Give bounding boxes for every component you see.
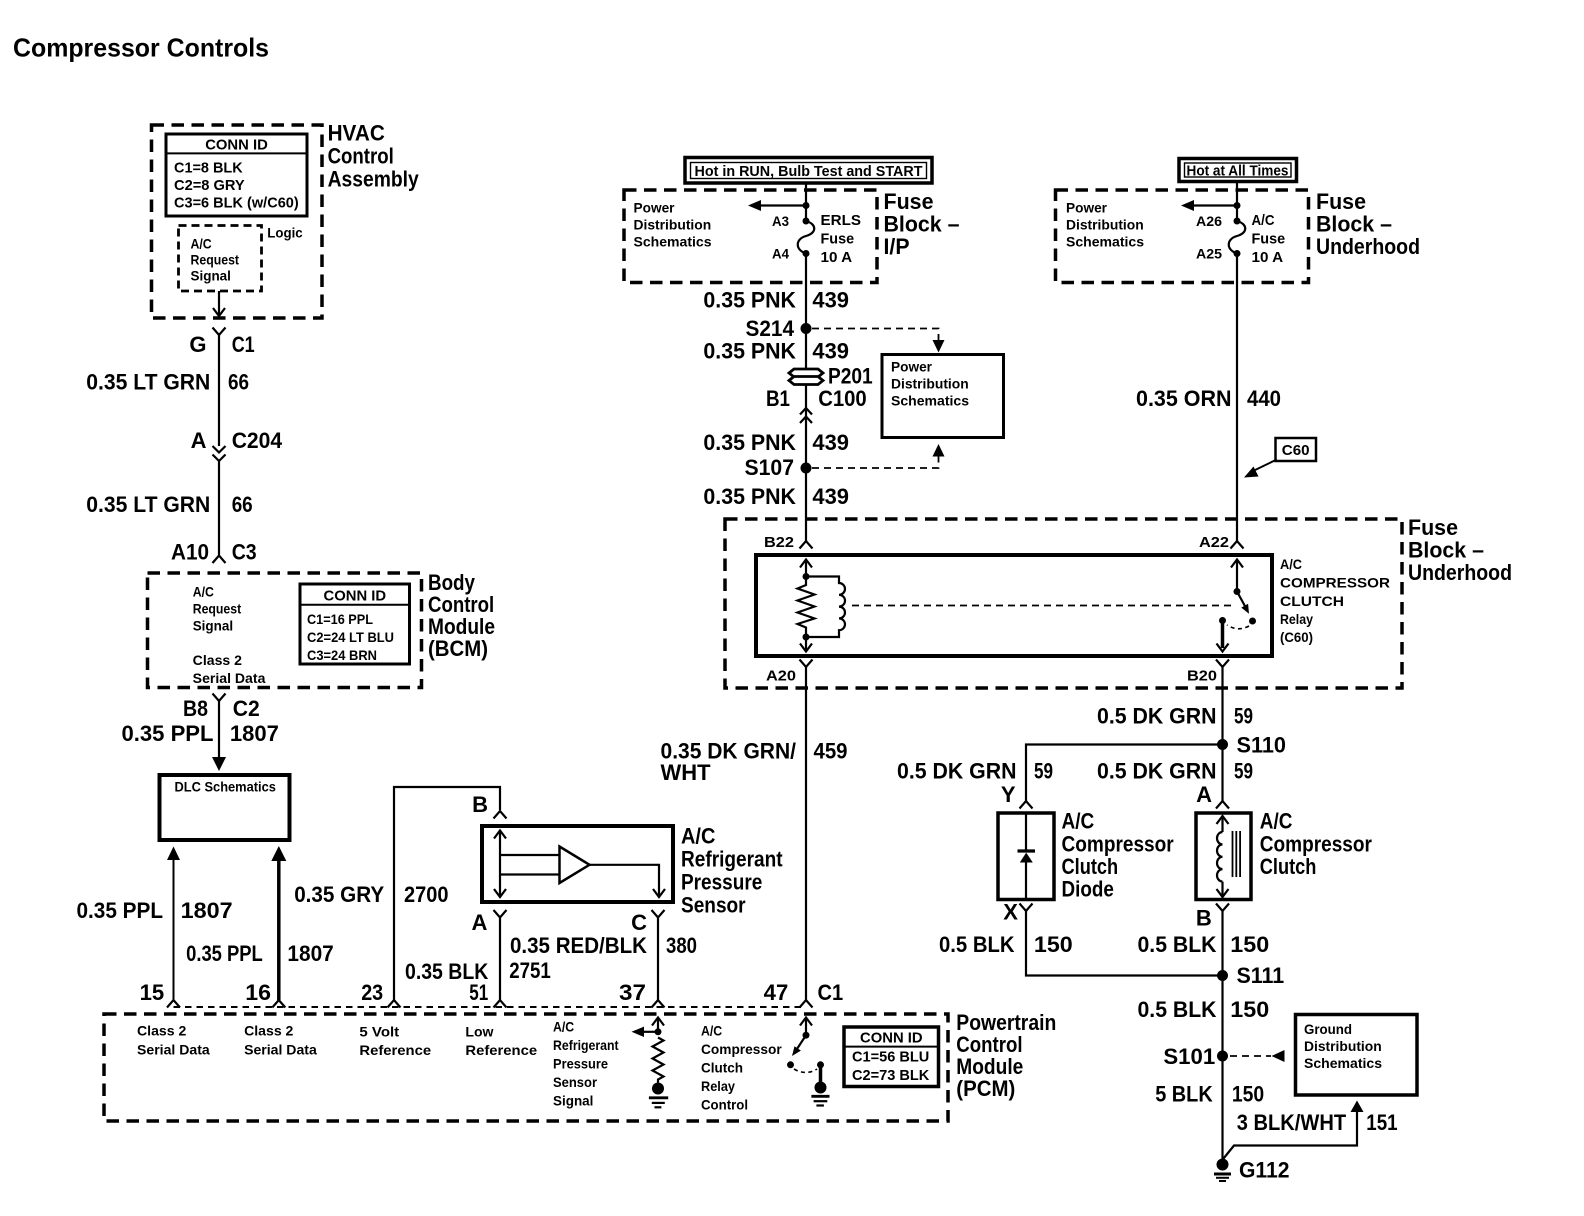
svg-text:Reference: Reference bbox=[359, 1042, 431, 1058]
svg-text:A/C: A/C bbox=[193, 584, 214, 600]
connector pin A clutch (fork) bbox=[1196, 782, 1229, 809]
svg-text:Relay: Relay bbox=[1280, 611, 1313, 627]
svg-text:S111: S111 bbox=[1237, 963, 1285, 988]
svg-text:HVAC: HVAC bbox=[328, 121, 385, 146]
svg-text:Relay: Relay bbox=[701, 1078, 735, 1094]
svg-text:Clutch: Clutch bbox=[1260, 854, 1317, 879]
wire 0.35 LT GRN 66 (upper) bbox=[86, 335, 249, 446]
splice S110 bbox=[1217, 733, 1286, 758]
wire 0.35 PPL 1807 (pin 16 to DLC) bbox=[186, 846, 334, 1000]
wire 0.35 PPL 1807 (BCM to DLC) bbox=[122, 701, 279, 771]
svg-text:2700: 2700 bbox=[404, 882, 449, 907]
svg-text:Request: Request bbox=[193, 601, 242, 617]
svg-text:Class 2: Class 2 bbox=[193, 652, 243, 668]
PCM pin 51 label Low Reference bbox=[465, 1024, 537, 1059]
module Fuse Block - Underhood relay (dashed box) bbox=[725, 519, 1402, 688]
svg-text:0.35 LT GRN: 0.35 LT GRN bbox=[86, 370, 210, 395]
svg-text:C204: C204 bbox=[232, 428, 283, 453]
grommet P201 bbox=[789, 364, 873, 389]
svg-text:A25: A25 bbox=[1196, 246, 1222, 262]
svg-text:C1=56 BLU: C1=56 BLU bbox=[852, 1049, 929, 1066]
splice S111 bbox=[1217, 963, 1284, 988]
connector pin X (fork) bbox=[1003, 900, 1032, 925]
svg-text:Power: Power bbox=[1066, 200, 1108, 216]
CONN ID table (BCM) bbox=[300, 584, 410, 664]
label A/C COMPRESSOR CLUTCH Relay (C60) bbox=[1280, 556, 1390, 645]
dashed leader S101 to Ground Distribution Schematics bbox=[1230, 1050, 1285, 1062]
svg-text:23: 23 bbox=[361, 980, 383, 1005]
svg-text:Schematics: Schematics bbox=[1066, 234, 1144, 250]
label A/C Compressor Clutch Diode bbox=[1062, 809, 1175, 902]
svg-text:10 A: 10 A bbox=[821, 249, 853, 266]
svg-text:1807: 1807 bbox=[287, 941, 333, 966]
svg-text:A22: A22 bbox=[1199, 534, 1229, 551]
svg-text:C3=6 BLK (w/C60): C3=6 BLK (w/C60) bbox=[174, 195, 299, 212]
header box Hot in RUN, Bulb Test and START bbox=[685, 158, 932, 184]
svg-text:C3=24 BRN: C3=24 BRN bbox=[307, 647, 377, 663]
wire 0.35 PNK 439 (S214 to P201) bbox=[703, 339, 849, 364]
PCM label A/C Compressor Clutch Relay Control bbox=[701, 1023, 782, 1113]
dashed leader S107 to Power Distribution Schematics bbox=[812, 444, 945, 468]
svg-text:439: 439 bbox=[812, 288, 849, 313]
svg-text:Serial Data: Serial Data bbox=[193, 670, 266, 686]
svg-text:Control: Control bbox=[701, 1097, 748, 1113]
svg-text:Serial Data: Serial Data bbox=[137, 1042, 210, 1058]
svg-text:(BCM): (BCM) bbox=[428, 636, 488, 661]
svg-text:C60: C60 bbox=[1282, 442, 1310, 459]
BCM internal labels bbox=[193, 584, 266, 687]
svg-text:A/C: A/C bbox=[1280, 556, 1302, 572]
svg-text:440: 440 bbox=[1247, 386, 1281, 411]
svg-text:C1=16 PPL: C1=16 PPL bbox=[307, 611, 373, 627]
svg-text:Low: Low bbox=[465, 1024, 493, 1040]
wire from Hot at All Times into fuse bbox=[1236, 181, 1238, 221]
svg-text:150: 150 bbox=[1034, 932, 1073, 957]
callout C60 bbox=[1244, 438, 1316, 478]
svg-text:A26: A26 bbox=[1196, 213, 1222, 229]
wire A/C request inside HVAC with arrow bbox=[213, 291, 225, 316]
svg-text:CONN ID: CONN ID bbox=[324, 588, 387, 605]
svg-text:0.35 PPL: 0.35 PPL bbox=[122, 721, 214, 746]
svg-text:Underhood: Underhood bbox=[1408, 560, 1512, 585]
wire 0.35 PNK 439 (C100 to S107) bbox=[703, 430, 849, 455]
header box Hot at All Times bbox=[1179, 159, 1297, 182]
svg-text:Class 2: Class 2 bbox=[244, 1023, 294, 1039]
svg-text:CONN ID: CONN ID bbox=[860, 1030, 923, 1047]
svg-text:B22: B22 bbox=[764, 534, 794, 551]
fuse A/C Fuse 10 A bbox=[1196, 212, 1285, 266]
diode symbol bbox=[1018, 813, 1036, 900]
svg-text:Fuse: Fuse bbox=[1252, 231, 1286, 248]
PCM pin 15 label Class 2 Serial Data bbox=[137, 1023, 210, 1058]
in-line connector A / C204 (double chevron) bbox=[191, 428, 283, 461]
svg-text:150: 150 bbox=[1230, 997, 1269, 1022]
wire 0.5 BLK 150 (X to S111) bbox=[939, 911, 1223, 976]
svg-text:S214: S214 bbox=[746, 316, 795, 341]
pin row dashed line bbox=[174, 1006, 807, 1008]
svg-text:66: 66 bbox=[228, 370, 249, 395]
wire 0.35 PNK 439 (S107 down) bbox=[703, 484, 849, 509]
svg-text:Distribution: Distribution bbox=[891, 376, 969, 392]
svg-text:0.35 LT GRN: 0.35 LT GRN bbox=[86, 492, 210, 517]
branch arrow to other circuits (underhood) bbox=[1181, 200, 1241, 211]
svg-text:ERLS: ERLS bbox=[821, 212, 862, 229]
module Fuse Block - Underhood top (dashed box) bbox=[1056, 190, 1309, 283]
svg-text:0.5 BLK: 0.5 BLK bbox=[939, 932, 1015, 957]
svg-text:1807: 1807 bbox=[181, 898, 233, 923]
wire from Hot in RUN into fuse block bbox=[805, 183, 807, 221]
svg-text:51: 51 bbox=[469, 980, 488, 1005]
svg-text:B8: B8 bbox=[183, 696, 208, 721]
PCM internal: pin 37 pull-up resistor to ground bbox=[632, 1018, 669, 1108]
svg-text:Serial Data: Serial Data bbox=[244, 1042, 317, 1058]
svg-text:B1: B1 bbox=[766, 386, 790, 411]
sensor internal: output line bbox=[590, 865, 666, 897]
block DLC Schematics bbox=[160, 775, 290, 840]
svg-text:Fuse: Fuse bbox=[821, 231, 855, 248]
clutch coil symbol bbox=[1217, 816, 1241, 897]
relay actuation dashed line bbox=[852, 605, 1233, 607]
svg-text:Fuse: Fuse bbox=[884, 189, 934, 214]
splice S107 bbox=[745, 455, 812, 480]
svg-text:X: X bbox=[1003, 900, 1018, 925]
connector pin B (fork) bbox=[472, 792, 506, 819]
svg-text:Assembly: Assembly bbox=[328, 166, 420, 191]
svg-text:0.35 RED/BLK: 0.35 RED/BLK bbox=[510, 933, 647, 958]
svg-text:G112: G112 bbox=[1239, 1158, 1290, 1183]
svg-text:459: 459 bbox=[814, 739, 848, 764]
svg-text:59: 59 bbox=[1034, 759, 1053, 784]
svg-text:C1: C1 bbox=[818, 980, 844, 1005]
fuse ERLS Fuse 10 A bbox=[772, 212, 861, 266]
svg-text:C2=73 BLK: C2=73 BLK bbox=[852, 1067, 929, 1084]
sensor internal: amplifier triangle bbox=[560, 847, 590, 884]
svg-text:Schematics: Schematics bbox=[1304, 1055, 1382, 1071]
svg-text:C2=24 LT BLU: C2=24 LT BLU bbox=[307, 629, 394, 645]
svg-text:Y: Y bbox=[1001, 782, 1016, 807]
svg-text:0.35 PNK: 0.35 PNK bbox=[703, 288, 796, 313]
svg-text:(C60): (C60) bbox=[1280, 629, 1313, 645]
svg-text:2751: 2751 bbox=[509, 958, 551, 983]
connector pin B clutch (fork) bbox=[1196, 904, 1229, 931]
svg-text:5 BLK: 5 BLK bbox=[1155, 1082, 1213, 1107]
svg-text:A/C: A/C bbox=[1062, 809, 1095, 834]
ground G112 bbox=[1214, 1158, 1290, 1183]
label Powertrain Control Module (PCM) bbox=[956, 1010, 1056, 1101]
sensor internal: supply line with arrows bbox=[494, 831, 560, 898]
svg-text:Power: Power bbox=[891, 359, 933, 375]
wire 0.35 LT GRN 66 (lower) bbox=[86, 461, 252, 556]
connector pin C (fork) + wire 0.35 RED/BLK 380 bbox=[510, 910, 697, 1000]
svg-text:A/C: A/C bbox=[1260, 809, 1293, 834]
relay switch bbox=[1217, 560, 1257, 652]
label Fuse Block - Underhood bbox=[1316, 189, 1420, 259]
connector pin B8 of C2 (fork) bbox=[183, 694, 260, 722]
svg-text:(PCM): (PCM) bbox=[956, 1076, 1015, 1101]
wire 5 BLK 150 (S101 to G112) bbox=[1155, 1056, 1264, 1160]
svg-text:151: 151 bbox=[1366, 1110, 1397, 1135]
wire 0.35 GRY 2700 (pin 23 to sensor B) bbox=[294, 787, 500, 1000]
PCM pin 23 label 5 Volt Reference bbox=[359, 1024, 431, 1059]
svg-text:0.35 ORN: 0.35 ORN bbox=[1136, 386, 1232, 411]
svg-text:A/C: A/C bbox=[191, 236, 212, 252]
svg-text:Signal: Signal bbox=[553, 1093, 593, 1109]
svg-text:Schematics: Schematics bbox=[634, 234, 712, 250]
svg-text:0.35 PPL: 0.35 PPL bbox=[77, 898, 164, 923]
wire 0.35 ORN 440 bbox=[1136, 254, 1281, 542]
svg-text:Diode: Diode bbox=[1062, 877, 1114, 902]
svg-text:A: A bbox=[1196, 782, 1212, 807]
svg-text:Reference: Reference bbox=[465, 1042, 537, 1058]
svg-text:Class 2: Class 2 bbox=[137, 1023, 187, 1039]
title Compressor Controls bbox=[13, 33, 269, 63]
wire 0.5 BLK 150 (S111 to S101) bbox=[1138, 997, 1270, 1022]
svg-text:5 Volt: 5 Volt bbox=[359, 1024, 399, 1040]
block Power Distribution Schematics bbox=[882, 355, 1004, 438]
connector pin G of C1 (fork) bbox=[189, 328, 254, 358]
svg-text:Compressor: Compressor bbox=[1062, 831, 1175, 856]
svg-text:15: 15 bbox=[140, 980, 165, 1005]
svg-text:439: 439 bbox=[812, 430, 849, 455]
wire 0.35 DK GRN/WHT 459 bbox=[661, 667, 848, 1000]
svg-text:C100: C100 bbox=[818, 386, 867, 411]
label Fuse Block - I/P bbox=[884, 189, 960, 259]
svg-text:Block –: Block – bbox=[884, 212, 960, 237]
svg-text:0.5 DK GRN: 0.5 DK GRN bbox=[1097, 759, 1217, 784]
dashed leader S214 to Power Distribution Schematics bbox=[812, 329, 945, 353]
svg-text:66: 66 bbox=[232, 492, 253, 517]
svg-text:Schematics: Schematics bbox=[891, 393, 969, 409]
in-line connector B1 C100 (double chevron) bbox=[766, 386, 867, 423]
svg-text:0.5 DK GRN: 0.5 DK GRN bbox=[897, 759, 1017, 784]
svg-text:A: A bbox=[472, 910, 488, 935]
A/C Refrigerant Pressure Sensor box bbox=[482, 826, 673, 902]
svg-text:Sensor: Sensor bbox=[681, 893, 746, 918]
svg-text:CONN ID: CONN ID bbox=[205, 137, 268, 154]
svg-text:P201: P201 bbox=[828, 364, 873, 389]
svg-text:Compressor: Compressor bbox=[701, 1041, 782, 1057]
connector pin A20 (fork) bbox=[766, 660, 813, 685]
svg-text:Logic: Logic bbox=[267, 225, 303, 241]
svg-text:B20: B20 bbox=[1187, 668, 1217, 685]
svg-text:0.5 BLK: 0.5 BLK bbox=[1138, 997, 1217, 1022]
svg-text:A20: A20 bbox=[766, 668, 796, 685]
svg-text:439: 439 bbox=[812, 339, 849, 364]
wire 0.35 PPL 1807 (pin 15 to DLC) bbox=[77, 847, 233, 1001]
svg-text:A10: A10 bbox=[171, 540, 209, 565]
wire label 0.5 DK GRN 59 (right) bbox=[1097, 759, 1253, 784]
svg-text:Distribution: Distribution bbox=[1304, 1038, 1382, 1054]
A/C Compressor Clutch Diode box bbox=[998, 813, 1054, 900]
label A/C Compressor Clutch bbox=[1260, 809, 1372, 880]
connector pin A10 of C3 (fork) bbox=[171, 540, 257, 565]
svg-text:A/C: A/C bbox=[1252, 212, 1275, 229]
svg-text:C1: C1 bbox=[232, 332, 255, 357]
PCM label A/C Refrigerant Pressure Sensor Signal bbox=[553, 1019, 619, 1109]
svg-text:S110: S110 bbox=[1237, 733, 1287, 758]
connector pin A22 (fork) bbox=[1199, 534, 1244, 551]
label HVAC Control Assembly bbox=[328, 121, 420, 192]
wire 0.35 PNK 439 (fuse to S214) bbox=[703, 254, 849, 542]
svg-text:150: 150 bbox=[1230, 932, 1269, 957]
svg-text:Clutch: Clutch bbox=[1062, 854, 1119, 879]
svg-text:150: 150 bbox=[1232, 1082, 1264, 1107]
svg-text:I/P: I/P bbox=[884, 234, 910, 259]
label Body Control Module (BCM) bbox=[428, 570, 495, 661]
svg-text:0.35 PNK: 0.35 PNK bbox=[703, 484, 796, 509]
module HVAC Control Assembly (dashed box) bbox=[152, 125, 323, 318]
splice S101 bbox=[1163, 1044, 1228, 1069]
wire branch S110 to diode (0.5 DK GRN 59) bbox=[897, 745, 1223, 802]
note Power Distribution Schematics (I/P) bbox=[634, 200, 712, 250]
connector pins 15 16 23 51 37 47 C1 (forks) bbox=[140, 980, 844, 1008]
svg-text:Distribution: Distribution bbox=[634, 217, 712, 233]
svg-text:Clutch: Clutch bbox=[701, 1060, 743, 1076]
svg-text:Compressor: Compressor bbox=[1260, 831, 1372, 856]
svg-text:0.35 PPL: 0.35 PPL bbox=[186, 941, 263, 966]
svg-text:10 A: 10 A bbox=[1252, 249, 1284, 266]
svg-text:A/C: A/C bbox=[553, 1019, 574, 1035]
wire 0.5 BLK 150 (B to S111) bbox=[1138, 911, 1270, 1056]
branch arrow to other circuits (I/P) bbox=[748, 200, 810, 211]
svg-text:Power: Power bbox=[634, 200, 676, 216]
svg-text:0.35 PNK: 0.35 PNK bbox=[703, 430, 796, 455]
label A/C Refrigerant Pressure Sensor bbox=[681, 824, 783, 918]
svg-text:439: 439 bbox=[812, 484, 849, 509]
wire 0.5 DK GRN 59 (B20 to S110) bbox=[1097, 667, 1253, 801]
note Power Distribution Schematics (underhood) bbox=[1066, 200, 1144, 250]
svg-text:CLUTCH: CLUTCH bbox=[1280, 593, 1344, 609]
svg-text:Signal: Signal bbox=[191, 268, 231, 284]
connector pin Y (fork) bbox=[1001, 782, 1033, 809]
svg-text:59: 59 bbox=[1234, 759, 1253, 784]
connector pin B22 (fork) bbox=[764, 534, 813, 551]
svg-text:A/C: A/C bbox=[681, 824, 715, 849]
svg-text:Block –: Block – bbox=[1408, 538, 1484, 563]
module Body Control Module (dashed box) bbox=[148, 573, 422, 688]
svg-text:Signal: Signal bbox=[193, 618, 233, 634]
svg-text:Refrigerant: Refrigerant bbox=[553, 1037, 619, 1053]
module Fuse Block - I/P (dashed box) bbox=[624, 190, 877, 283]
svg-text:Fuse: Fuse bbox=[1408, 515, 1458, 540]
logic block A/C Request Signal (dashed) bbox=[179, 226, 262, 292]
svg-text:Pressure: Pressure bbox=[681, 870, 762, 895]
svg-text:DLC Schematics: DLC Schematics bbox=[175, 779, 277, 795]
svg-text:Distribution: Distribution bbox=[1066, 217, 1144, 233]
svg-text:A4: A4 bbox=[772, 246, 789, 262]
connector pin A (fork) + wire 0.35 BLK 2751 bbox=[405, 910, 551, 1000]
label Logic bbox=[267, 225, 303, 241]
PCM internal: pin 47 driver switch to ground bbox=[787, 1018, 830, 1106]
svg-text:C2: C2 bbox=[233, 696, 260, 721]
module Powertrain Control Module (dashed box) bbox=[104, 1014, 948, 1121]
relay coil branch bbox=[798, 560, 846, 652]
CONN ID table (HVAC) bbox=[166, 134, 307, 216]
CONN ID table (PCM) bbox=[844, 1027, 939, 1087]
svg-text:S101: S101 bbox=[1163, 1044, 1215, 1069]
svg-text:3 BLK/WHT: 3 BLK/WHT bbox=[1237, 1110, 1347, 1135]
relay box A/C COMPRESSOR CLUTCH Relay bbox=[756, 555, 1272, 656]
svg-text:B: B bbox=[472, 792, 488, 817]
svg-text:S107: S107 bbox=[745, 455, 795, 480]
svg-text:C: C bbox=[631, 910, 647, 935]
connector pin B20 (fork) bbox=[1187, 660, 1229, 685]
svg-text:C2=8 GRY: C2=8 GRY bbox=[174, 177, 245, 194]
wire 3 BLK/WHT 151 (ground distribution branch) bbox=[1224, 1101, 1398, 1159]
svg-text:0.5 DK GRN: 0.5 DK GRN bbox=[1097, 704, 1217, 729]
svg-text:Compressor Controls: Compressor Controls bbox=[13, 33, 269, 63]
svg-text:Fuse: Fuse bbox=[1316, 189, 1366, 214]
label Fuse Block - Underhood (relay) bbox=[1408, 515, 1512, 585]
svg-text:Underhood: Underhood bbox=[1316, 234, 1420, 259]
svg-text:16: 16 bbox=[245, 980, 271, 1005]
svg-text:59: 59 bbox=[1234, 704, 1253, 729]
PCM pin 16 label Class 2 Serial Data bbox=[244, 1023, 317, 1058]
svg-text:A: A bbox=[191, 428, 207, 453]
svg-text:Block –: Block – bbox=[1316, 212, 1392, 237]
svg-text:0.35 GRY: 0.35 GRY bbox=[294, 882, 384, 907]
svg-text:Control: Control bbox=[328, 144, 394, 169]
svg-text:Hot at All Times: Hot at All Times bbox=[1187, 163, 1289, 180]
svg-text:Refrigerant: Refrigerant bbox=[681, 847, 783, 872]
svg-text:47: 47 bbox=[764, 980, 789, 1005]
svg-text:B: B bbox=[1196, 906, 1212, 931]
svg-text:C3: C3 bbox=[232, 540, 257, 565]
A/C Compressor Clutch box bbox=[1196, 813, 1251, 900]
svg-text:WHT: WHT bbox=[661, 760, 712, 785]
svg-text:COMPRESSOR: COMPRESSOR bbox=[1280, 575, 1390, 591]
block Ground Distribution Schematics bbox=[1296, 1015, 1418, 1096]
svg-text:0.5 BLK: 0.5 BLK bbox=[1138, 932, 1217, 957]
splice S214 bbox=[746, 316, 812, 341]
svg-text:380: 380 bbox=[666, 933, 697, 958]
svg-text:Hot in RUN, Bulb Test and STAR: Hot in RUN, Bulb Test and START bbox=[695, 163, 923, 180]
svg-text:A3: A3 bbox=[772, 213, 789, 229]
svg-text:Pressure: Pressure bbox=[553, 1056, 608, 1072]
svg-text:1807: 1807 bbox=[230, 721, 279, 746]
svg-text:A/C: A/C bbox=[701, 1023, 722, 1039]
svg-text:Sensor: Sensor bbox=[553, 1074, 598, 1090]
svg-text:C1=8 BLK: C1=8 BLK bbox=[174, 160, 243, 177]
svg-text:37: 37 bbox=[619, 980, 646, 1005]
svg-text:Ground: Ground bbox=[1304, 1021, 1352, 1037]
svg-text:G: G bbox=[189, 332, 206, 357]
svg-text:Request: Request bbox=[191, 252, 240, 268]
svg-text:0.35 PNK: 0.35 PNK bbox=[703, 339, 796, 364]
